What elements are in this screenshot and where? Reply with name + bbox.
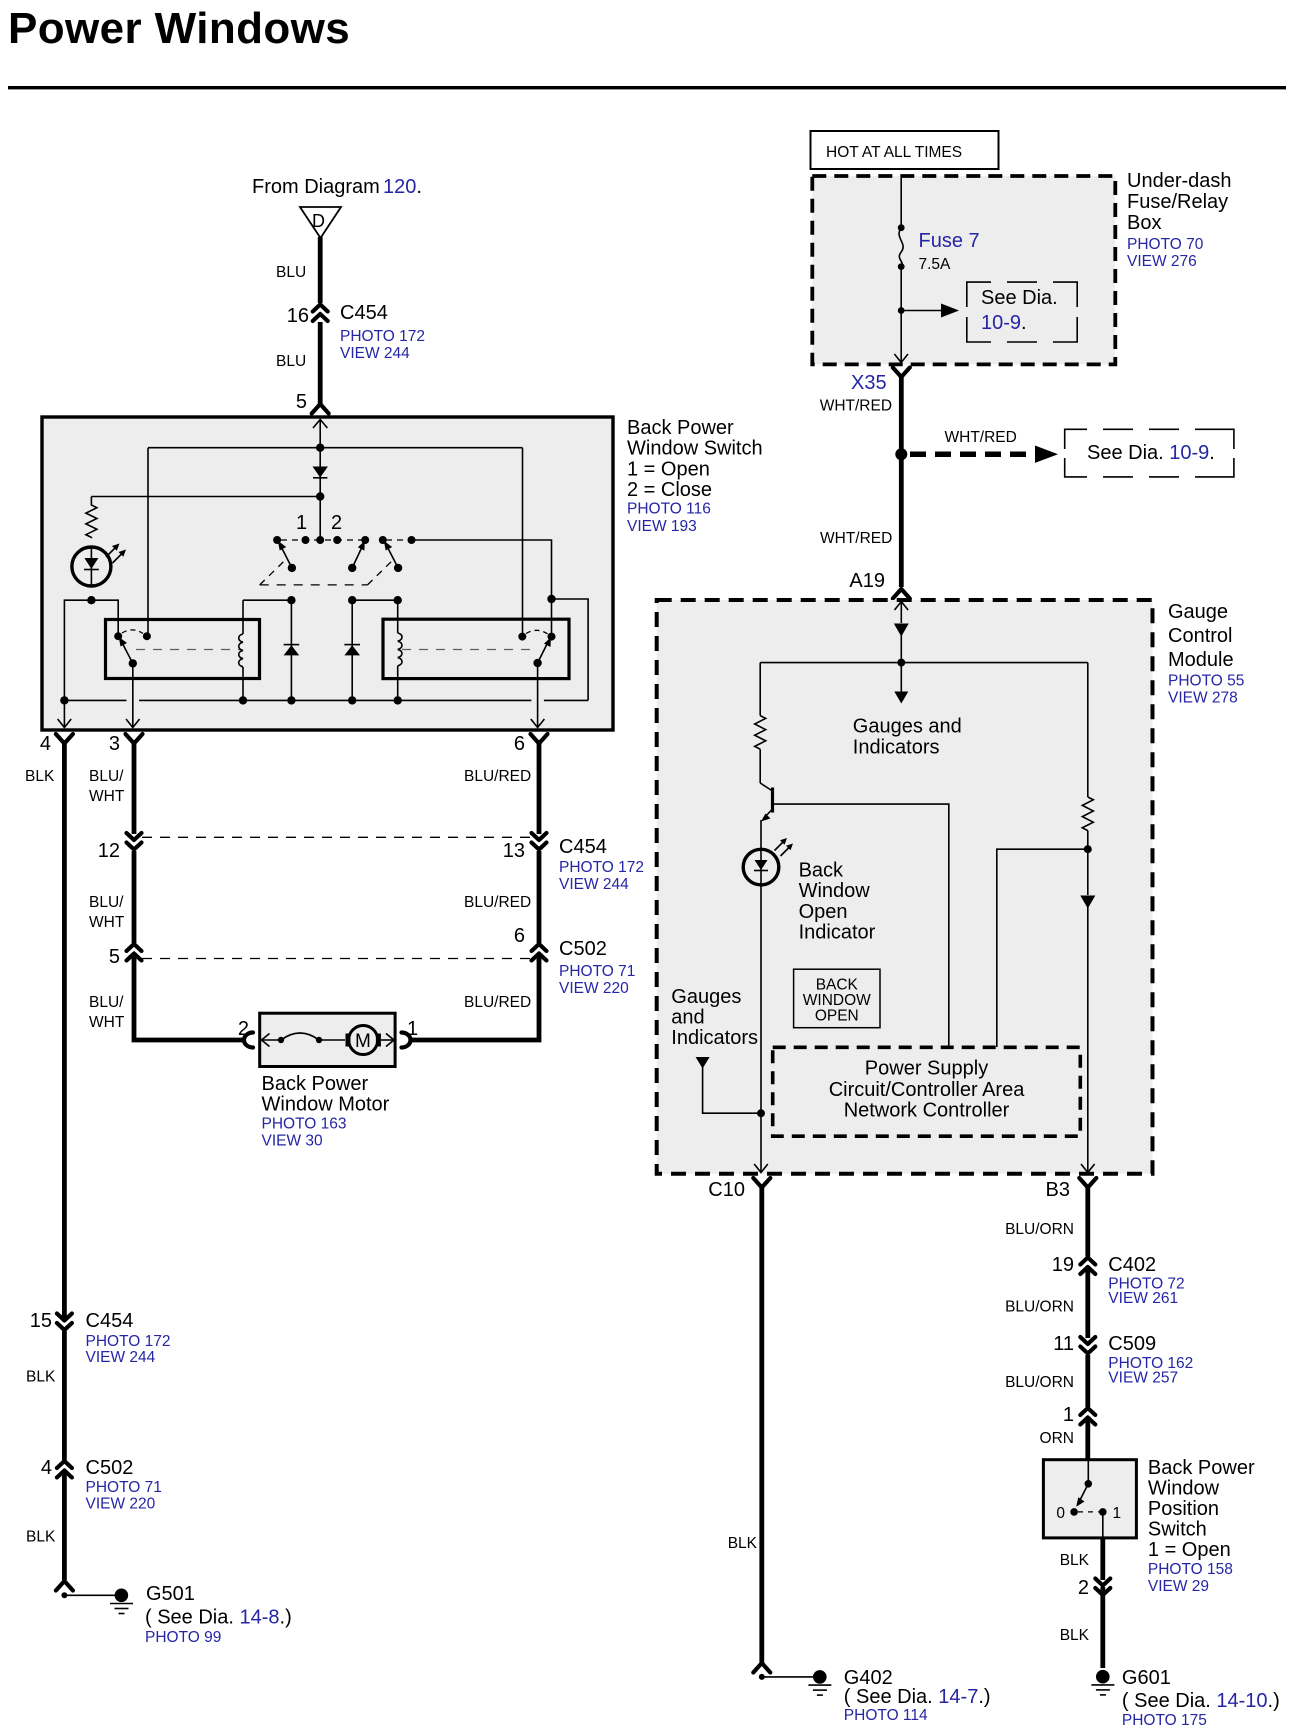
svg-text:3: 3 [109,733,120,755]
diode D3 [351,600,353,700]
gauge control module box [657,600,1153,1174]
svg-text:PHOTO 55: PHOTO 55 [1168,673,1244,690]
motor thermal protector [278,1037,284,1043]
svg-text:VIEW 244: VIEW 244 [559,876,629,893]
svg-text:7.5A: 7.5A [919,256,952,273]
B3 exit arrow [1081,1164,1095,1173]
motor pin 2 cup [244,1033,253,1048]
left relay mechanical link dashes [136,649,240,651]
svg-text:C10: C10 [708,1179,745,1201]
dashed branch wire to see dia 10-9 [910,451,1040,457]
wire BLU/ORN B3 to C402 [1085,1184,1090,1258]
left relay box [106,620,260,679]
arrow to gauges and indicators [900,663,902,694]
svg-text:19: 19 [1052,1254,1074,1276]
node under arm C [394,596,402,604]
svg-text:0: 0 [1056,1505,1065,1522]
right relay coil [397,600,399,633]
under-dash fuse/relay box [812,176,1115,364]
motor pin 1 internal arrow [381,1039,394,1041]
svg-text:4: 4 [41,1457,52,1479]
ground G501 [115,1589,129,1603]
svg-text:VIEW 244: VIEW 244 [340,345,410,362]
svg-text:PHOTO 163: PHOTO 163 [262,1116,347,1133]
node: centre junction to resistor rail [316,492,324,500]
wire BLU/RED pin6 down to C454 pin 13 [537,740,542,834]
svg-text:BLU/: BLU/ [89,894,124,911]
ground G601 [1096,1670,1110,1684]
svg-text:1 = Open: 1 = Open [627,459,710,481]
node right branch [1084,845,1092,853]
svg-text:BLK: BLK [1060,1627,1090,1644]
svg-text:VIEW 29: VIEW 29 [1148,1578,1209,1595]
svg-text:Indicator: Indicator [799,922,876,944]
svg-text:BLK: BLK [26,1529,56,1546]
middle switch contact row [273,536,281,544]
svg-text:Switch: Switch [1148,1519,1207,1541]
svg-text:Control: Control [1168,625,1232,647]
svg-text:PHOTO 172: PHOTO 172 [86,1333,171,1350]
svg-text:1: 1 [296,512,307,534]
svg-text:PHOTO 172: PHOTO 172 [559,859,644,876]
wire ORN pin 1 to position switch [1085,1417,1090,1462]
svg-text:BLU/: BLU/ [89,768,124,785]
motor pin 2 internal arrow [261,1039,279,1041]
svg-text:Position: Position [1148,1498,1219,1520]
left relay moving arm [123,644,133,664]
wire BLK pin 2 to G601 [1100,1587,1105,1668]
wire BLU/WHT 12 to C502 pin 5 [132,851,137,961]
wire: rail right branch down to right relay fixed contact a [522,448,524,637]
switch arm B [348,564,356,572]
wire pin4 exit arrow [63,700,65,727]
node with branch [895,448,907,460]
right relay contacts [518,633,526,641]
wire end cup at G402 [753,1663,770,1673]
wire BLK to connector pin 2 [1100,1538,1105,1580]
wire BLK pin4 down [62,740,67,1580]
node under arm B [348,596,356,604]
svg-text:WINDOW: WINDOW [803,992,871,1009]
left relay coil [242,600,244,634]
off-page connector triangle D [300,207,341,238]
wire into fuse 7 [900,178,902,228]
svg-text:BLK: BLK [728,1535,758,1552]
svg-text:5: 5 [109,946,120,968]
diode D4 [894,624,909,637]
svg-text:BACK: BACK [816,977,859,994]
transistor base wire to controller [774,804,949,1047]
svg-text:See Dia.: See Dia. [981,287,1058,309]
svg-text:2: 2 [331,512,342,534]
svg-text:2 = Close: 2 = Close [627,479,712,501]
svg-text:VIEW 257: VIEW 257 [1108,1370,1178,1387]
wire node to left relay fixed contact a [91,600,118,636]
wire to X35 with exit arrow [900,311,902,363]
mechanical linkage dashes [260,559,287,585]
svg-text:C402: C402 [1108,1254,1156,1276]
wire contact 1 to box edge [1102,1512,1104,1538]
svg-text:Window: Window [799,880,871,902]
position switch internals [1087,1461,1089,1484]
back power window position switch box [1043,1460,1136,1538]
wire right relay arm exit to pin 6 [537,663,539,727]
svg-text:Gauges and: Gauges and [853,716,962,738]
svg-text:VIEW 276: VIEW 276 [1127,253,1197,270]
svg-text:VIEW 244: VIEW 244 [86,1349,156,1366]
pin 3 cup [126,734,143,744]
svg-text:Circuit/Controller Area: Circuit/Controller Area [829,1079,1026,1101]
svg-text:BLK: BLK [1060,1552,1090,1569]
wire contact row to right relay contact b [412,540,552,637]
connector C509 pin 11 (chevrons down) [1080,1337,1095,1355]
svg-text:C502: C502 [86,1457,134,1479]
svg-text:Network Controller: Network Controller [844,1100,1010,1122]
svg-text:WHT: WHT [89,788,125,805]
pin 4 cup [56,734,73,744]
right relay moving arm [538,644,547,663]
node under arm A [287,596,295,604]
A19 internal arrow [900,602,902,624]
svg-text:Power Supply: Power Supply [865,1058,988,1080]
motor pin 1 cup [402,1033,411,1048]
connector C454 pin 15 (chevrons down) [57,1314,72,1332]
svg-text:From Diagram: From Diagram [252,176,380,198]
svg-text:BLU: BLU [276,353,306,370]
gauge rail [760,662,1088,664]
svg-text:BLK: BLK [25,768,55,785]
connector C454 pin 16 (in-line, chevrons up) [313,304,328,322]
back window open text box [794,969,880,1027]
svg-text:PHOTO 158: PHOTO 158 [1148,1561,1233,1578]
svg-text:C454: C454 [559,836,607,858]
svg-text:2: 2 [1078,1577,1089,1599]
svg-text:BLU/RED: BLU/RED [464,768,531,785]
svg-text:10-9.: 10-9. [981,312,1027,334]
switch pin 5 entry cup [312,404,329,414]
svg-text:B3: B3 [1046,1179,1070,1201]
wire WHT/RED X35 to A19 [899,374,904,587]
resistor R1 (LED dropping) [86,497,97,538]
right relay box [383,619,569,678]
pin 6 cup [531,734,548,744]
svg-text:BLU/RED: BLU/RED [464,994,531,1011]
transistor Q1 [760,783,772,791]
svg-text:BLU/ORN: BLU/ORN [1005,1299,1074,1316]
back power window motor box [260,1013,395,1066]
wire to ground G402 [762,1676,820,1678]
svg-text:PHOTO 71: PHOTO 71 [86,1479,162,1496]
svg-text:6: 6 [514,733,525,755]
wire arm A pivot exit to pin 3 [132,663,134,727]
bottom rail (with crossover gaps at pins 3 and 6) [64,699,126,701]
svg-text:G601: G601 [1122,1667,1171,1689]
svg-text:WHT: WHT [89,914,125,931]
svg-text:Under-dash: Under-dash [1127,170,1232,192]
svg-text:VIEW 193: VIEW 193 [627,518,697,535]
see dia 10-9 box (right) [1065,429,1234,477]
wire node to controller [997,849,1088,1047]
svg-text:BLU/RED: BLU/RED [464,894,531,911]
connector plane C454 (dashed) [142,836,532,838]
connector C454 pin 13 (chevrons down) [532,833,547,851]
connector plane C502 (dashed) [142,958,532,960]
wire BLU from C454 to switch pin 5 [318,322,323,404]
svg-text:12: 12 [98,840,120,862]
svg-text:PHOTO 114: PHOTO 114 [844,1707,928,1724]
switch arm C [394,564,402,572]
hot at all times box [811,131,999,169]
C10 exit arrow [754,1164,768,1173]
svg-text:( See Dia. 14-10.): ( See Dia. 14-10.) [1122,1690,1280,1712]
svg-text:Power Windows: Power Windows [8,4,350,53]
wire BLU/RED 13 to C502 pin 6 [537,851,542,961]
svg-text:WHT/RED: WHT/RED [820,530,892,547]
svg-text:Back Power: Back Power [1148,1457,1255,1479]
svg-text:Window Switch: Window Switch [627,438,763,460]
LED back window open indicator [743,849,779,885]
pin 5 internal arrow [319,419,321,448]
wire coil top to node under arm A [243,599,291,601]
connector C454 pin 12 (chevrons down) [127,833,142,851]
wire BLU/RED down and left to motor pin 1 [410,959,539,1040]
wire BLU/ORN 19 to C509 pin 11 [1085,1266,1090,1338]
ground G402 [813,1670,827,1684]
back power window switch box [42,417,613,730]
power supply / CAN controller box [773,1047,1081,1136]
diode D2 [290,600,292,700]
wire BLU from triangle D to connector C454 pin 16 [318,237,323,303]
node: top rail [148,447,523,449]
svg-text:Open: Open [799,901,848,923]
fuse 7 element [899,228,903,267]
connector pin 1 (chevrons up) [1080,1407,1095,1425]
gauges and indicators arrow to LED wire [696,1057,710,1069]
svg-text:HOT AT ALL TIMES: HOT AT ALL TIMES [826,144,962,161]
svg-text:Gauge: Gauge [1168,601,1228,623]
position switch arm [1080,1484,1089,1501]
svg-text:Indicators: Indicators [853,737,940,759]
svg-text:OPEN: OPEN [815,1008,859,1025]
wire to ground G501 [64,1594,121,1596]
svg-text:Window Motor: Window Motor [262,1094,390,1116]
svg-text:PHOTO 71: PHOTO 71 [559,963,635,980]
wire BLU/WHT pin3 down to C454 pin 12 [132,740,137,834]
left relay contacts [114,632,122,640]
svg-text:WHT/RED: WHT/RED [945,429,1017,446]
svg-text:C502: C502 [559,938,607,960]
svg-text:BLK: BLK [26,1369,56,1386]
svg-text:1 = Open: 1 = Open [1148,1539,1231,1561]
wire centre down to common contact [319,497,321,541]
svg-text:M: M [355,1031,371,1052]
svg-text:Window: Window [1148,1478,1220,1500]
svg-text:16: 16 [287,305,309,327]
svg-text:1: 1 [407,1018,418,1040]
connector C10 cup [753,1178,770,1188]
svg-text:and: and [671,1007,704,1029]
svg-text:2: 2 [238,1018,249,1040]
right relay mechanical link dashes [402,649,532,651]
svg-text:15: 15 [30,1310,52,1332]
connector C502 pin 4 (chevrons up) [57,1460,72,1478]
wire end cup at G501 [56,1581,73,1591]
wire BLU/WHT down and right to motor pin 2 [134,959,244,1040]
svg-text:Fuse/Relay: Fuse/Relay [1127,191,1228,213]
connector X35 cup [893,368,910,378]
svg-text:C454: C454 [340,302,388,324]
svg-text:A19: A19 [849,570,885,592]
node on contact b riser [547,595,555,603]
svg-text:( See Dia. 14-7.): ( See Dia. 14-7.) [844,1686,991,1708]
LED light arrows [106,546,118,558]
resistor R2 [759,663,761,716]
svg-text:VIEW 30: VIEW 30 [262,1133,324,1150]
svg-text:X35: X35 [851,372,887,394]
svg-text:PHOTO 116: PHOTO 116 [627,501,711,518]
svg-text:1: 1 [1063,1404,1074,1426]
wire node to pin4 drop [64,600,91,700]
svg-text:Back: Back [799,860,844,882]
position switch contacts 0 and 1 [1070,1508,1078,1516]
svg-text:See Dia. 10-9.: See Dia. 10-9. [1087,442,1215,464]
wire: rail left branch down to left relay fixed contact b [147,448,149,637]
svg-text:BLU/ORN: BLU/ORN [1005,1374,1074,1391]
connector C502 pin 6 (chevrons up) [532,943,547,961]
svg-text:BLU: BLU [276,264,306,281]
connector pin 2 (chevrons down) [1095,1579,1110,1597]
svg-text:VIEW 220: VIEW 220 [559,980,629,997]
motor M [349,1026,378,1055]
connector B3 cup [1079,1178,1096,1188]
svg-text:13: 13 [503,840,525,862]
svg-text:WHT/RED: WHT/RED [820,398,892,415]
node on gauge rail [897,659,905,667]
svg-text:Back Power: Back Power [627,417,734,439]
svg-text:Module: Module [1168,649,1234,671]
LED light arrows [775,840,786,851]
wire BLK C10 to G402 [759,1184,764,1664]
wire BLU/ORN 11 to pin 1 [1085,1355,1090,1412]
svg-text:120.: 120. [383,176,422,198]
see dia 10-9 box (internal) [967,282,1077,342]
svg-text:WHT: WHT [89,1014,125,1031]
svg-text:Back Power: Back Power [262,1073,369,1095]
svg-text:ORN: ORN [1040,1430,1074,1447]
svg-text:VIEW 220: VIEW 220 [86,1496,156,1513]
svg-text:VIEW 261: VIEW 261 [1108,1290,1178,1307]
svg-text:11: 11 [1053,1333,1074,1355]
wire fuse to node [900,267,902,311]
switch arm A [288,564,296,572]
svg-text:Box: Box [1127,212,1161,234]
svg-text:BLU/: BLU/ [89,994,124,1011]
svg-text:PHOTO 172: PHOTO 172 [340,328,425,345]
svg-text:1: 1 [1113,1505,1122,1522]
svg-text:PHOTO 70: PHOTO 70 [1127,236,1204,253]
svg-text:D: D [312,211,325,231]
branch arrow to see dia 10-9 [901,310,945,312]
wire LED cathode to node [87,596,95,604]
diode D5 [1080,896,1095,909]
svg-text:PHOTO 99: PHOTO 99 [145,1629,221,1646]
svg-text:VIEW 278: VIEW 278 [1168,690,1238,707]
title rule [8,86,1286,89]
svg-text:G501: G501 [146,1583,195,1605]
svg-text:5: 5 [296,391,307,413]
svg-text:6: 6 [514,925,525,947]
svg-text:Indicators: Indicators [671,1027,758,1049]
svg-text:4: 4 [40,733,51,755]
svg-text:BLU/ORN: BLU/ORN [1005,1221,1074,1238]
connector C502 pin 5 (chevrons up) [127,943,142,961]
wire node to bottom rail corner [552,599,589,700]
svg-text:PHOTO 175: PHOTO 175 [1122,1712,1207,1729]
connector C402 pin 19 (chevrons up) [1080,1257,1095,1275]
svg-text:Gauges: Gauges [671,986,741,1008]
right branch: resistor R3 [1087,663,1089,797]
svg-text:C509: C509 [1108,1333,1156,1355]
wire LED to C10 [760,885,762,1172]
svg-text:C454: C454 [86,1310,134,1332]
svg-text:( See Dia. 14-8.): ( See Dia. 14-8.) [145,1607,292,1629]
svg-text:Fuse 7: Fuse 7 [919,230,980,252]
LED illumination lamp [72,547,111,586]
diode D1 on centre wire [319,448,321,497]
